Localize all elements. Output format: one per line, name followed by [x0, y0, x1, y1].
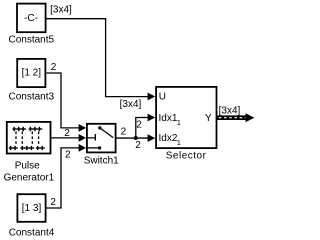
constant block Constant4 — [17, 194, 45, 222]
svg-text:Y: Y — [205, 113, 212, 124]
constant block Constant5 — [17, 4, 46, 33]
svg-text:[1 3]: [1 3] — [22, 203, 42, 214]
svg-text:Constant5: Constant5 — [9, 34, 55, 45]
constant block Constant3 — [17, 59, 45, 87]
wire Constant4 to Switch1 input 3 — [47, 144, 87, 208]
pulse generator block Pulse Generator1 — [7, 122, 51, 154]
svg-text:2: 2 — [64, 128, 70, 139]
svg-text:-C-: -C- — [24, 13, 38, 24]
svg-text:Switch1: Switch1 — [84, 156, 119, 167]
svg-text:2: 2 — [50, 197, 56, 208]
svg-text:2: 2 — [135, 140, 141, 151]
svg-text:U: U — [159, 92, 166, 103]
switch block Switch1 — [87, 124, 116, 153]
svg-text:Pulse: Pulse — [15, 160, 40, 171]
svg-text:2: 2 — [65, 150, 71, 161]
svg-text:Constant4: Constant4 — [9, 227, 55, 237]
selector block Selector U Idx1 Idx2 Y — [156, 87, 216, 148]
svg-text:[3x4]: [3x4] — [219, 105, 241, 116]
wire Pulse Generator1 to Switch1 input 2 — [51, 134, 87, 142]
svg-text:2: 2 — [136, 120, 142, 131]
label Pulse Generator1 — [4, 160, 55, 183]
svg-text:1: 1 — [177, 138, 181, 147]
wire Constant5 to Selector U — [46, 19, 155, 101]
svg-text:1: 1 — [177, 118, 181, 127]
wide output wire from Selector Y — [217, 113, 254, 122]
wire branch to Selector Idx1 — [136, 114, 155, 138]
svg-text:[1 2]: [1 2] — [22, 67, 42, 78]
wire Constant3 to Switch1 input 1 — [46, 73, 86, 132]
junction node — [134, 136, 138, 140]
svg-text:Constant3: Constant3 — [9, 91, 55, 102]
svg-text:[3x4]: [3x4] — [120, 99, 142, 110]
svg-text:[3x4]: [3x4] — [50, 5, 72, 16]
svg-text:Generator1: Generator1 — [4, 172, 55, 183]
svg-text:Idx1: Idx1 — [159, 113, 178, 124]
svg-text:2: 2 — [121, 126, 127, 137]
svg-text:Selector: Selector — [166, 150, 207, 161]
svg-text:2: 2 — [51, 62, 57, 73]
svg-text:Idx2: Idx2 — [159, 133, 178, 144]
wire Switch1 to Selector Idx2 — [117, 134, 156, 142]
